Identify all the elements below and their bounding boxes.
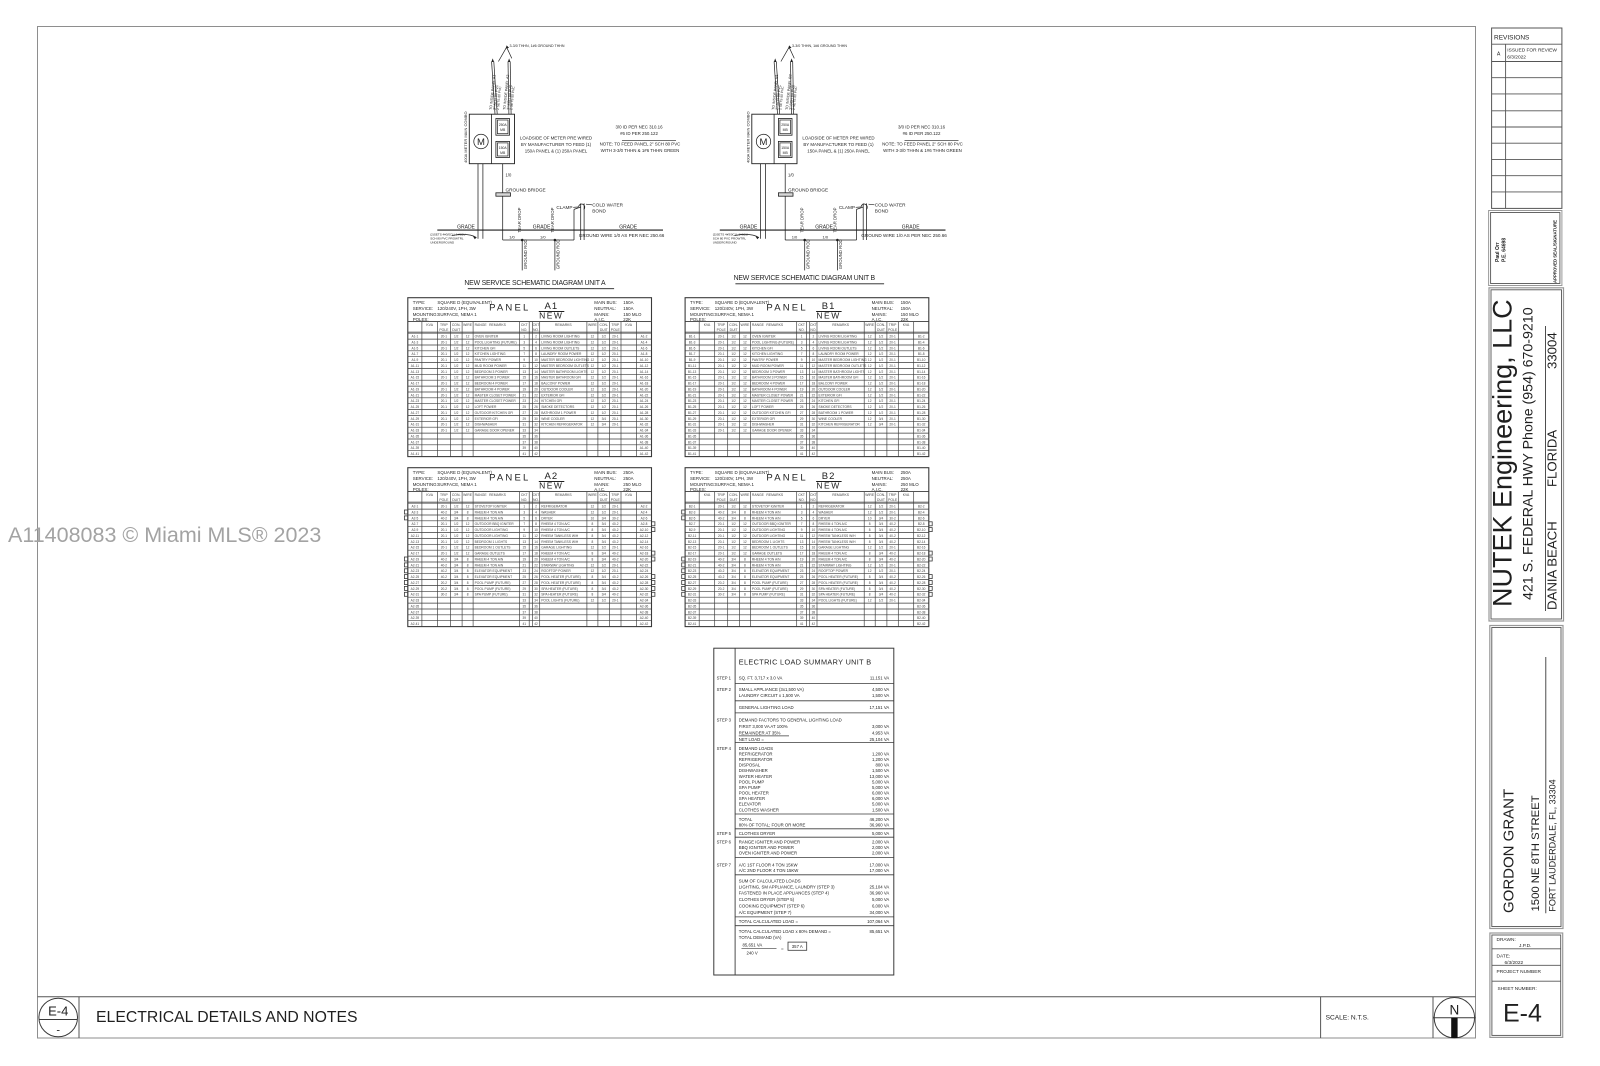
- svg-text:STEP 3: STEP 3: [717, 717, 732, 722]
- svg-text:POLE: POLE: [888, 328, 898, 332]
- svg-text:PANEL: PANEL: [489, 303, 530, 314]
- svg-text:RHEEM 4 TON A/C: RHEEM 4 TON A/C: [541, 528, 570, 532]
- svg-text:A2-17: A2-17: [411, 552, 420, 556]
- svg-text:-: -: [56, 1025, 60, 1037]
- svg-text:20-1: 20-1: [889, 387, 896, 391]
- svg-text:FIRST 3,000 VA AT 100%: FIRST 3,000 VA AT 100%: [739, 724, 788, 729]
- svg-text:150A PANEL & (1) 250A PANEL: 150A PANEL & (1) 250A PANEL: [807, 149, 870, 154]
- svg-text:B1-15: B1-15: [688, 376, 697, 380]
- svg-text:3/4: 3/4: [454, 569, 459, 573]
- svg-text:3/4: 3/4: [879, 552, 884, 556]
- svg-text:27: 27: [523, 411, 527, 415]
- svg-text:20-1: 20-1: [718, 505, 725, 509]
- svg-text:34: 34: [812, 599, 816, 603]
- svg-text:B2-6: B2-6: [918, 516, 925, 520]
- svg-text:20-1: 20-1: [889, 546, 896, 550]
- svg-text:24: 24: [534, 569, 538, 573]
- svg-text:19: 19: [800, 387, 804, 391]
- svg-text:6/3/2022: 6/3/2022: [1507, 55, 1526, 61]
- svg-text:1/2: 1/2: [602, 370, 607, 374]
- svg-text:TEAR DROP: TEAR DROP: [832, 207, 837, 232]
- svg-text:CON-: CON-: [729, 493, 738, 497]
- svg-text:12: 12: [466, 387, 470, 391]
- svg-text:CON-: CON-: [877, 323, 886, 327]
- svg-text:3/4: 3/4: [731, 575, 736, 579]
- svg-text:3/4: 3/4: [454, 563, 459, 567]
- svg-text:20-1: 20-1: [718, 429, 725, 433]
- svg-text:10: 10: [534, 528, 538, 532]
- svg-text:40-2: 40-2: [612, 522, 619, 526]
- svg-text:A1-1: A1-1: [412, 335, 419, 339]
- svg-text:7: 7: [523, 352, 525, 356]
- svg-text:20-1: 20-1: [718, 546, 725, 550]
- svg-text:12: 12: [868, 405, 872, 409]
- svg-text:20-1: 20-1: [889, 423, 896, 427]
- svg-text:A/C 2ND FLOOR 4 TON 15KW: A/C 2ND FLOOR 4 TON 15KW: [739, 868, 799, 873]
- svg-text:12: 12: [868, 393, 872, 397]
- svg-text:A2-16: A2-16: [640, 546, 649, 550]
- svg-text:1/2: 1/2: [879, 364, 884, 368]
- svg-text:20-1: 20-1: [441, 528, 448, 532]
- svg-text:2: 2: [535, 335, 537, 339]
- svg-text:BY MANUFACTURER TO FEED (1): BY MANUFACTURER TO FEED (1): [521, 142, 592, 147]
- svg-text:B2-23: B2-23: [688, 569, 697, 573]
- svg-text:OUTDOOR LIGHTING: OUTDOOR LIGHTING: [752, 534, 786, 538]
- svg-text:NET LOAD =: NET LOAD =: [739, 737, 765, 742]
- svg-text:20-1: 20-1: [889, 358, 896, 362]
- svg-text:B2-8: B2-8: [918, 522, 925, 526]
- svg-text:NO.: NO.: [810, 498, 816, 502]
- svg-text:107,064 VA: 107,064 VA: [867, 919, 889, 924]
- svg-text:MB: MB: [783, 151, 789, 155]
- svg-text:20-1: 20-1: [612, 505, 619, 509]
- svg-text:A1-22: A1-22: [640, 393, 649, 397]
- svg-text:KVA: KVA: [704, 323, 711, 327]
- svg-text:3/4: 3/4: [731, 587, 736, 591]
- svg-text:150A: 150A: [781, 146, 790, 150]
- svg-text:B1-7: B1-7: [689, 352, 696, 356]
- svg-text:12: 12: [743, 522, 747, 526]
- svg-text:B1-17: B1-17: [688, 382, 697, 386]
- svg-text:20-1: 20-1: [441, 522, 448, 526]
- svg-text:37: 37: [523, 440, 527, 444]
- svg-text:8: 8: [467, 563, 469, 567]
- svg-text:POOL PUMP (FUTURE): POOL PUMP (FUTURE): [752, 587, 788, 591]
- svg-text:40-2: 40-2: [889, 557, 896, 561]
- svg-text:APPROVED SEAL/SIGNATURE: APPROVED SEAL/SIGNATURE: [1553, 220, 1558, 283]
- svg-text:BOND: BOND: [875, 209, 889, 214]
- svg-text:SQUARE D (EQUIVALENT): SQUARE D (EQUIVALENT): [715, 470, 770, 475]
- svg-text:LOADSIDE OF METER PRE WIRED: LOADSIDE OF METER PRE WIRED: [802, 136, 874, 141]
- svg-text:12: 12: [466, 528, 470, 532]
- svg-text:A2-2: A2-2: [641, 505, 648, 509]
- svg-text:40: 40: [812, 446, 816, 450]
- svg-text:POLE: POLE: [611, 328, 621, 332]
- svg-text:3/4: 3/4: [879, 423, 884, 427]
- svg-text:REMARKS: REMARKS: [489, 493, 507, 497]
- svg-text:1/2: 1/2: [731, 417, 736, 421]
- svg-text:12: 12: [743, 417, 747, 421]
- svg-text:RHEEM TANKLESS W/H: RHEEM TANKLESS W/H: [819, 534, 857, 538]
- svg-text:12: 12: [591, 399, 595, 403]
- svg-text:TEAR DROP: TEAR DROP: [800, 207, 805, 232]
- svg-text:41: 41: [800, 622, 804, 626]
- svg-text:12: 12: [868, 399, 872, 403]
- svg-text:12: 12: [743, 376, 747, 380]
- svg-text:GARAGE DOOR OPENER: GARAGE DOOR OPENER: [752, 429, 792, 433]
- svg-text:37: 37: [523, 610, 527, 614]
- svg-text:40-2: 40-2: [718, 510, 725, 514]
- svg-text:#6 ID PER 250.122: #6 ID PER 250.122: [903, 131, 941, 136]
- svg-text:24: 24: [812, 569, 816, 573]
- svg-text:POLES:: POLES:: [690, 317, 706, 322]
- svg-text:8: 8: [592, 552, 594, 556]
- svg-text:40-2: 40-2: [718, 575, 725, 579]
- svg-text:1/2: 1/2: [731, 429, 736, 433]
- svg-text:DUIT: DUIT: [877, 498, 885, 502]
- svg-text:7: 7: [801, 352, 803, 356]
- svg-text:3: 3: [523, 510, 525, 514]
- svg-text:1/2: 1/2: [454, 393, 459, 397]
- svg-text:A2-1: A2-1: [412, 505, 419, 509]
- svg-text:12: 12: [743, 340, 747, 344]
- svg-text:22: 22: [812, 393, 816, 397]
- svg-text:1/2: 1/2: [731, 528, 736, 532]
- svg-text:12: 12: [591, 358, 595, 362]
- svg-text:1/2: 1/2: [731, 505, 736, 509]
- svg-text:A1-25: A1-25: [411, 405, 420, 409]
- svg-text:41: 41: [800, 452, 804, 456]
- svg-text:REMARKS: REMARKS: [766, 323, 784, 327]
- svg-text:POOL HEATER (FUTURE): POOL HEATER (FUTURE): [819, 581, 859, 585]
- svg-text:1,500 VA: 1,500 VA: [872, 693, 889, 698]
- svg-text:20-1: 20-1: [889, 393, 896, 397]
- svg-text:LIVING ROOM LIGHTING: LIVING ROOM LIGHTING: [541, 335, 580, 339]
- svg-text:LIVING ROOM OUTLETS: LIVING ROOM OUTLETS: [541, 346, 580, 350]
- svg-text:LIGHTING, SM APPLIANCE, LAUNDR: LIGHTING, SM APPLIANCE, LAUNDRY (STEP 3): [739, 884, 835, 889]
- svg-text:COLD WATER: COLD WATER: [592, 203, 623, 208]
- svg-text:12: 12: [466, 340, 470, 344]
- svg-text:11,151 VA: 11,151 VA: [870, 676, 890, 681]
- svg-text:28: 28: [812, 581, 816, 585]
- svg-text:A2-32: A2-32: [640, 593, 649, 597]
- svg-text:3/4: 3/4: [602, 575, 607, 579]
- svg-text:A2-39: A2-39: [411, 616, 420, 620]
- svg-text:B2-27: B2-27: [688, 581, 697, 585]
- svg-text:34,000 VA: 34,000 VA: [870, 910, 890, 915]
- svg-text:STEP 1: STEP 1: [717, 676, 732, 681]
- svg-text:B1-2: B1-2: [918, 335, 925, 339]
- svg-text:8: 8: [467, 516, 469, 520]
- svg-text:OUTDOOR LIGHTING: OUTDOOR LIGHTING: [752, 528, 786, 532]
- svg-text:B2-13: B2-13: [688, 540, 697, 544]
- svg-text:POOL PUMP (FUTURE): POOL PUMP (FUTURE): [752, 581, 788, 585]
- svg-text:40-2: 40-2: [441, 510, 448, 514]
- svg-text:7: 7: [523, 522, 525, 526]
- svg-text:A1-32: A1-32: [640, 423, 649, 427]
- svg-text:B1-19: B1-19: [688, 387, 697, 391]
- svg-text:3/4: 3/4: [879, 557, 884, 561]
- svg-text:SURFACE, NEMA 1: SURFACE, NEMA 1: [715, 482, 755, 487]
- svg-text:1/2: 1/2: [454, 522, 459, 526]
- svg-text:40-2: 40-2: [612, 534, 619, 538]
- svg-text:B1-13: B1-13: [688, 370, 697, 374]
- svg-text:8: 8: [467, 581, 469, 585]
- svg-text:1/2: 1/2: [879, 352, 884, 356]
- svg-text:12: 12: [466, 522, 470, 526]
- svg-text:1/2: 1/2: [454, 528, 459, 532]
- svg-text:POLES:: POLES:: [413, 487, 429, 492]
- svg-text:1: 1: [523, 335, 525, 339]
- svg-text:1/2: 1/2: [602, 393, 607, 397]
- svg-text:1/0: 1/0: [540, 235, 546, 240]
- svg-text:20-1: 20-1: [441, 340, 448, 344]
- svg-text:20-1: 20-1: [718, 340, 725, 344]
- svg-text:WITH 3-3/0 THHN & 1#6 THHN GRE: WITH 3-3/0 THHN & 1#6 THHN GREEN: [883, 148, 962, 153]
- svg-text:18: 18: [812, 552, 816, 556]
- svg-text:B2-15: B2-15: [688, 546, 697, 550]
- svg-text:1/2: 1/2: [879, 411, 884, 415]
- svg-text:SERVICE:: SERVICE:: [413, 306, 433, 311]
- svg-text:1/2: 1/2: [879, 387, 884, 391]
- svg-text:250A: 250A: [901, 470, 911, 475]
- svg-text:12: 12: [868, 505, 872, 509]
- svg-text:DUIT: DUIT: [730, 498, 738, 502]
- svg-text:B1-37: B1-37: [688, 440, 697, 444]
- svg-text:BOND: BOND: [592, 209, 606, 214]
- svg-text:13,000 VA: 13,000 VA: [870, 774, 890, 779]
- svg-text:A2-10: A2-10: [640, 528, 649, 532]
- svg-text:B1-21: B1-21: [688, 393, 697, 397]
- svg-text:RHEEM 4 TON A/N: RHEEM 4 TON A/N: [475, 557, 504, 561]
- svg-text:8: 8: [592, 581, 594, 585]
- svg-text:8: 8: [467, 510, 469, 514]
- svg-text:GROUND BRIDGE: GROUND BRIDGE: [506, 187, 546, 192]
- svg-text:20-1: 20-1: [441, 358, 448, 362]
- svg-text:20-1: 20-1: [441, 546, 448, 550]
- svg-text:6: 6: [535, 516, 537, 520]
- svg-text:30: 30: [812, 417, 816, 421]
- svg-text:16: 16: [534, 546, 538, 550]
- svg-text:20-1: 20-1: [889, 411, 896, 415]
- svg-text:A2-35: A2-35: [411, 604, 420, 608]
- svg-text:3/4: 3/4: [602, 593, 607, 597]
- svg-text:KITCHEN LIGHTING: KITCHEN LIGHTING: [475, 352, 506, 356]
- svg-text:ELEVATOR EQUIPMENT: ELEVATOR EQUIPMENT: [475, 575, 513, 579]
- svg-text:KVA: KVA: [625, 323, 632, 327]
- svg-text:A.I.C.: A.I.C.: [594, 487, 605, 492]
- svg-text:MAIN BUS:: MAIN BUS:: [594, 300, 616, 305]
- svg-text:DISHWASHER: DISHWASHER: [475, 423, 498, 427]
- svg-text:8: 8: [869, 581, 871, 585]
- svg-text:B2-19: B2-19: [688, 557, 697, 561]
- svg-text:12: 12: [868, 352, 872, 356]
- svg-text:POOL LIGHTS (FUTURE): POOL LIGHTS (FUTURE): [541, 599, 579, 603]
- svg-text:8: 8: [592, 593, 594, 597]
- svg-text:REFRIGERATOR: REFRIGERATOR: [739, 757, 773, 762]
- svg-text:8: 8: [744, 569, 746, 573]
- svg-text:3/0 ID PER NEC 310.16: 3/0 ID PER NEC 310.16: [898, 125, 946, 130]
- svg-text:A1-27: A1-27: [411, 411, 420, 415]
- svg-text:TEAR DROP: TEAR DROP: [517, 207, 522, 232]
- svg-text:25: 25: [523, 405, 527, 409]
- svg-text:KVA: KVA: [903, 493, 910, 497]
- svg-text:36,960 VA: 36,960 VA: [870, 891, 890, 896]
- svg-text:PROJECT NUMBER: PROJECT NUMBER: [1497, 969, 1542, 975]
- svg-text:1/2: 1/2: [454, 358, 459, 362]
- svg-text:STOVETOP IGNITER: STOVETOP IGNITER: [475, 505, 508, 509]
- svg-text:25: 25: [800, 575, 804, 579]
- svg-text:A2-31: A2-31: [411, 593, 420, 597]
- svg-text:A2-14: A2-14: [640, 540, 649, 544]
- svg-text:1/2: 1/2: [454, 423, 459, 427]
- svg-text:GRADE: GRADE: [902, 225, 920, 231]
- svg-text:20-1: 20-1: [718, 370, 725, 374]
- svg-text:TOTAL: TOTAL: [739, 817, 753, 822]
- svg-text:40-2: 40-2: [612, 540, 619, 544]
- svg-text:A1-10: A1-10: [640, 358, 649, 362]
- svg-text:16: 16: [812, 546, 816, 550]
- svg-text:1,500 VA: 1,500 VA: [872, 807, 889, 812]
- svg-text:20-1: 20-1: [441, 540, 448, 544]
- svg-text:CKT: CKT: [533, 323, 540, 327]
- svg-text:40-2: 40-2: [889, 522, 896, 526]
- svg-text:1/2: 1/2: [879, 393, 884, 397]
- svg-text:12: 12: [466, 411, 470, 415]
- svg-text:9: 9: [801, 528, 803, 532]
- svg-text:B1-22: B1-22: [917, 393, 926, 397]
- svg-text:NOTE: TO FEED PANEL 2" SCH 80: NOTE: TO FEED PANEL 2" SCH 80 PVC: [882, 142, 963, 147]
- svg-text:8: 8: [535, 352, 537, 356]
- svg-text:B1-30: B1-30: [917, 417, 926, 421]
- svg-text:1/2: 1/2: [879, 505, 884, 509]
- svg-text:A1-20: A1-20: [640, 387, 649, 391]
- svg-text:B1-18: B1-18: [917, 382, 926, 386]
- svg-text:12: 12: [466, 423, 470, 427]
- svg-text:POOL HEATER (FUTURE): POOL HEATER (FUTURE): [541, 581, 581, 585]
- svg-text:12: 12: [466, 393, 470, 397]
- svg-text:PANEL: PANEL: [766, 303, 807, 314]
- svg-text:40-2: 40-2: [889, 540, 896, 544]
- svg-text:1/2: 1/2: [454, 340, 459, 344]
- svg-text:35: 35: [523, 604, 527, 608]
- svg-text:B2-42: B2-42: [917, 622, 926, 626]
- svg-text:8: 8: [467, 593, 469, 597]
- svg-text:27: 27: [800, 411, 804, 415]
- svg-text:12: 12: [466, 505, 470, 509]
- svg-text:8: 8: [592, 587, 594, 591]
- svg-text:1/2: 1/2: [879, 358, 884, 362]
- svg-text:LIVING ROOM OUTLETS: LIVING ROOM OUTLETS: [819, 346, 858, 350]
- svg-text:RHEEM 4 TON A/C: RHEEM 4 TON A/C: [819, 552, 848, 556]
- svg-text:22K: 22K: [623, 317, 631, 322]
- svg-text:EXTERIOR GFI: EXTERIOR GFI: [752, 417, 775, 421]
- svg-text:B2-28: B2-28: [917, 581, 926, 585]
- svg-text:33: 33: [800, 599, 804, 603]
- svg-text:1/2: 1/2: [602, 340, 607, 344]
- svg-text:POOL LIGHTING (FUTURE): POOL LIGHTING (FUTURE): [475, 340, 517, 344]
- svg-text:8: 8: [744, 593, 746, 597]
- svg-text:40-2: 40-2: [612, 557, 619, 561]
- svg-text:1: 1: [801, 335, 803, 339]
- svg-text:WITH 3-3/0 THHN & 1#6 THHN GRE: WITH 3-3/0 THHN & 1#6 THHN GREEN: [601, 148, 680, 153]
- svg-text:TRIP: TRIP: [611, 323, 619, 327]
- svg-text:8: 8: [744, 581, 746, 585]
- svg-text:DUIT: DUIT: [600, 498, 608, 502]
- svg-text:P.E. 64698: P.E. 64698: [1502, 238, 1508, 262]
- svg-text:Paul Orr: Paul Orr: [1495, 242, 1501, 262]
- svg-text:12: 12: [868, 335, 872, 339]
- svg-text:24: 24: [534, 399, 538, 403]
- svg-text:B1-11: B1-11: [688, 364, 696, 368]
- svg-text:B2-36: B2-36: [917, 604, 926, 608]
- svg-text:42: 42: [534, 452, 538, 456]
- svg-text:22: 22: [534, 563, 538, 567]
- svg-text:A2-40: A2-40: [640, 616, 649, 620]
- svg-text:A2-8: A2-8: [641, 522, 648, 526]
- svg-text:20-1: 20-1: [441, 393, 448, 397]
- svg-text:1/2: 1/2: [602, 346, 607, 350]
- svg-text:20-2: 20-2: [441, 581, 448, 585]
- svg-text:GROUND ROD: GROUND ROD: [838, 239, 843, 269]
- svg-text:DISPOSAL: DISPOSAL: [739, 763, 761, 768]
- svg-text:20-1: 20-1: [441, 405, 448, 409]
- svg-text:COOKING EQUIPMENT (STEP 6): COOKING EQUIPMENT (STEP 6): [739, 904, 805, 909]
- svg-text:MAIN BUS:: MAIN BUS:: [872, 300, 894, 305]
- svg-text:12: 12: [591, 335, 595, 339]
- svg-text:26: 26: [812, 405, 816, 409]
- svg-text:1/2: 1/2: [454, 429, 459, 433]
- svg-text:8: 8: [535, 522, 537, 526]
- svg-text:A1-35: A1-35: [411, 434, 420, 438]
- svg-text:20-1: 20-1: [889, 364, 896, 368]
- svg-text:CON-: CON-: [452, 493, 461, 497]
- svg-text:15: 15: [523, 376, 527, 380]
- svg-text:15: 15: [800, 376, 804, 380]
- svg-text:20-1: 20-1: [612, 340, 619, 344]
- svg-text:12: 12: [466, 358, 470, 362]
- svg-text:1/2: 1/2: [602, 569, 607, 573]
- svg-text:8: 8: [744, 587, 746, 591]
- svg-text:BBQ IGNITER AND POWER: BBQ IGNITER AND POWER: [739, 845, 794, 850]
- svg-text:19: 19: [523, 557, 527, 561]
- svg-text:41: 41: [523, 622, 527, 626]
- svg-text:3/4: 3/4: [602, 522, 607, 526]
- svg-text:1/2: 1/2: [602, 505, 607, 509]
- svg-text:12: 12: [868, 364, 872, 368]
- svg-text:36: 36: [534, 604, 538, 608]
- svg-text:3/0 ID PER NEC 310.16: 3/0 ID PER NEC 310.16: [615, 125, 663, 130]
- svg-text:25,104 VA: 25,104 VA: [870, 737, 890, 742]
- svg-text:3/4: 3/4: [602, 540, 607, 544]
- svg-text:1/2: 1/2: [731, 540, 736, 544]
- svg-text:KITCHEN GFI: KITCHEN GFI: [475, 346, 496, 350]
- svg-text:29: 29: [800, 587, 804, 591]
- svg-text:A2-22: A2-22: [640, 563, 649, 567]
- svg-text:40-2: 40-2: [889, 581, 896, 585]
- svg-text:17,000 VA: 17,000 VA: [870, 868, 890, 873]
- svg-text:REMAINDER AT 35%: REMAINDER AT 35%: [739, 730, 781, 735]
- svg-text:TOTAL CALCULATED LOAD x 80% DE: TOTAL CALCULATED LOAD x 80% DEMAND =: [739, 929, 832, 934]
- svg-text:POLE: POLE: [439, 498, 449, 502]
- svg-text:MASTER BATHROOM LIGHTS: MASTER BATHROOM LIGHTS: [541, 370, 588, 374]
- svg-text:KVA: KVA: [625, 493, 632, 497]
- svg-text:GRADE: GRADE: [533, 225, 551, 231]
- svg-text:12: 12: [868, 346, 872, 350]
- svg-text:12: 12: [591, 599, 595, 603]
- svg-text:31: 31: [523, 593, 527, 597]
- svg-text:RHEEM 4 TON A/C: RHEEM 4 TON A/C: [819, 528, 848, 532]
